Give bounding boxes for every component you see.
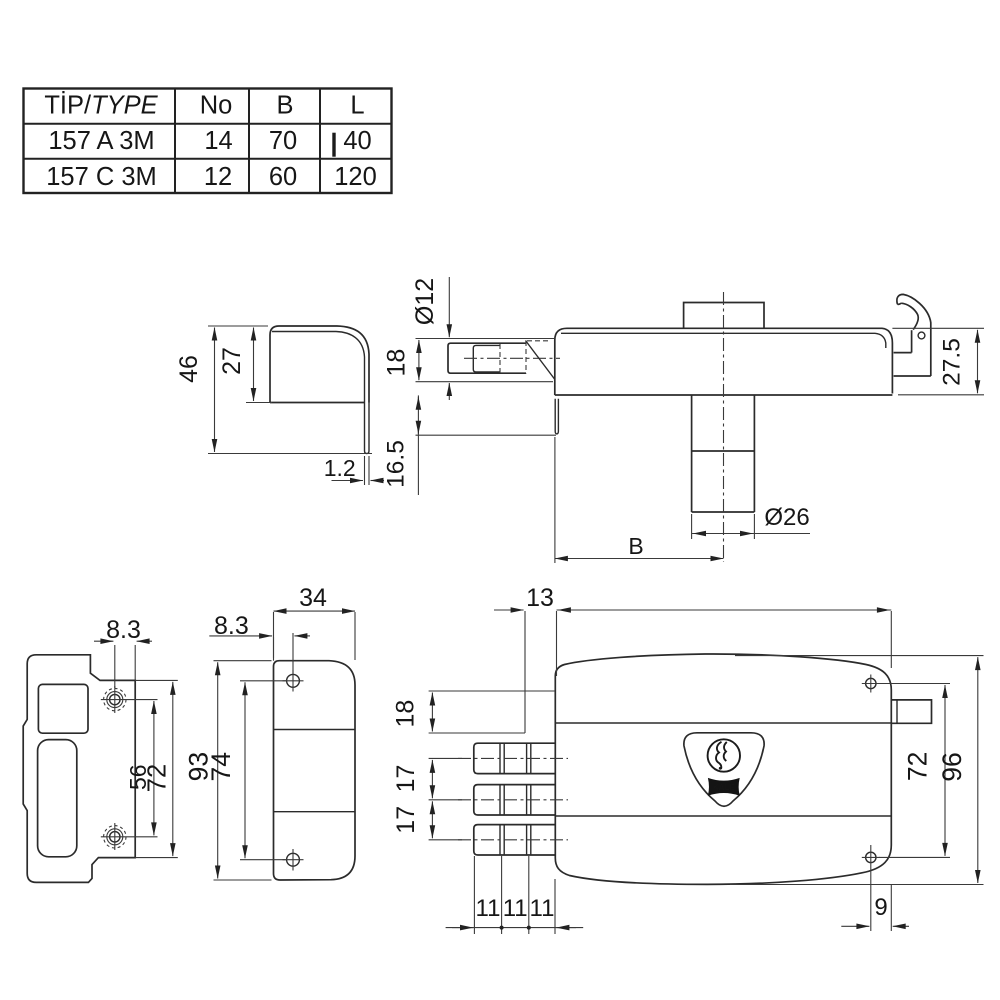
svg-text:157 A 3M: 157 A 3M: [48, 127, 154, 155]
strike plate side view outline: [23, 655, 135, 883]
strike plate front view outline: [274, 661, 356, 880]
kale logo badge: [684, 733, 764, 806]
svg-text:14: 14: [204, 127, 232, 155]
svg-text:18: 18: [383, 349, 411, 377]
dimension B: [554, 437, 556, 563]
dimension 34: [273, 612, 275, 658]
dimension 17 upper: [429, 757, 462, 759]
dimension 96: [735, 655, 984, 657]
table row 157 C 3M: [46, 163, 377, 191]
hook pivot hole: [918, 332, 925, 339]
svg-text:11: 11: [476, 895, 501, 922]
svg-text:18: 18: [392, 700, 420, 728]
top view: diagonal break line: [526, 341, 555, 380]
front screw hole top: [862, 675, 880, 693]
dimension 72 side view: [135, 679, 178, 681]
top view: left extension lines: [416, 338, 555, 340]
svg-text:74: 74: [206, 752, 236, 781]
top view: knob boss: [684, 303, 764, 329]
dimension 18 top view: [418, 340, 420, 380]
front screw hole bottom: [862, 852, 880, 862]
cover box outline: [270, 326, 369, 403]
svg-text:11: 11: [503, 895, 528, 922]
svg-text:9: 9: [874, 894, 887, 921]
dimension 74: [240, 680, 287, 682]
svg-text:96: 96: [937, 752, 967, 781]
lock front view case outline: [555, 654, 891, 884]
svg-text:17: 17: [392, 806, 420, 834]
top view: spindle hub: [692, 395, 755, 512]
dimension 8.3 front view: [273, 637, 275, 661]
dimension 46: [208, 325, 268, 327]
svg-text:L: L: [350, 92, 364, 120]
top view: lock case band outline: [555, 328, 893, 395]
dimension 9: [870, 845, 872, 931]
strike front screw hole top: [283, 670, 304, 692]
bolt 2: [474, 785, 555, 815]
svg-text:17: 17: [392, 765, 420, 793]
table header row: [44, 91, 364, 120]
top view: mounting plate lip: [555, 399, 558, 434]
hook lever outer curl: [897, 294, 931, 322]
strike plate box opening: [38, 684, 88, 733]
bolt 1: [474, 743, 555, 773]
dimension 17 lower: [429, 839, 462, 841]
svg-text:8.3: 8.3: [214, 612, 249, 640]
top view: spindle centerline: [723, 292, 725, 562]
cover box inner sheet line: [272, 332, 365, 403]
top view: case inner sheet line: [561, 333, 886, 348]
dimension 16.5: [417, 395, 419, 495]
cover plate tongue: [365, 403, 370, 454]
svg-text:13: 13: [526, 584, 554, 612]
svg-text:12: 12: [204, 163, 232, 191]
svg-text:27.5: 27.5: [939, 338, 966, 386]
svg-text:40: 40: [343, 127, 371, 155]
top view: cylinder centerline: [464, 357, 560, 359]
bolt section lines: [500, 743, 531, 855]
svg-text:27: 27: [218, 347, 246, 375]
svg-text:Ø26: Ø26: [764, 504, 809, 531]
dimension 27: [246, 402, 272, 404]
lock front fold lines: [555, 722, 891, 724]
dimension Ø26: [691, 514, 693, 539]
kale logo banner: [708, 778, 740, 796]
svg-text:11: 11: [530, 895, 555, 922]
svg-text:Ø12: Ø12: [411, 278, 439, 325]
svg-text:TİP/TYPE: TİP/TYPE: [44, 91, 158, 120]
svg-text:B: B: [628, 533, 643, 559]
kale logo flame: [716, 742, 722, 769]
strike plate latch slot: [38, 740, 77, 857]
strike screw hole bottom: [101, 823, 158, 850]
svg-text:No: No: [200, 92, 233, 120]
dimension 72 front view: [879, 683, 950, 685]
svg-text:72: 72: [903, 752, 933, 781]
cover box bottom edge: [270, 402, 365, 404]
svg-text:46: 46: [175, 355, 203, 383]
strike front fold lines: [274, 729, 356, 731]
hook lever inner curl: [901, 303, 918, 329]
svg-text:72: 72: [144, 764, 172, 792]
svg-text:B: B: [276, 92, 293, 120]
dimension 18 front view: [429, 690, 555, 692]
hook lever body: [894, 323, 931, 377]
svg-text:1.2: 1.2: [324, 455, 356, 481]
spec table frame: [24, 89, 392, 194]
dimension 56: [153, 701, 155, 835]
dimension 8.3 side view: [114, 645, 116, 688]
top view: cylinder plug: [473, 345, 500, 372]
svg-text:8.3: 8.3: [106, 616, 141, 644]
dimension 1.2: [364, 456, 366, 485]
svg-text:KALE: KALE: [713, 783, 735, 792]
hook lever nub close: [897, 303, 901, 304]
strike front screw hole bottom: [283, 849, 304, 871]
kale logo circle: [708, 739, 740, 771]
latch stop block: [891, 700, 931, 723]
dimension Ø12: [448, 277, 450, 337]
top view: case bottom edge: [555, 394, 893, 396]
svg-text:16.5: 16.5: [383, 440, 410, 488]
dimension 93: [214, 660, 272, 662]
top view: cylinder hidden lines: [500, 341, 551, 374]
dimension 27.5: [892, 327, 984, 329]
bolt centerlines: [458, 757, 568, 759]
strike screw hole top: [101, 686, 158, 713]
table row 157 A 3M: [48, 127, 371, 157]
svg-text:34: 34: [299, 584, 327, 612]
top view: cylinder body: [448, 343, 526, 373]
dimension 11 11 11: [446, 856, 584, 934]
bolt 3: [474, 825, 555, 855]
svg-text:157 C 3M: 157 C 3M: [46, 163, 157, 191]
svg-text:70: 70: [269, 127, 297, 155]
svg-text:120: 120: [334, 163, 377, 191]
svg-text:60: 60: [269, 163, 297, 191]
